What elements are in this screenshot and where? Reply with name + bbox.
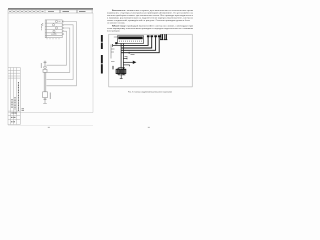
pin numbers right side of A1 xyxy=(63,21,64,35)
svg-text:Рис. 8. Схема соединений выклю: Рис. 8. Схема соединений выключателя заж… xyxy=(128,91,173,94)
paragraph text block xyxy=(107,10,194,32)
wire 3 xyxy=(46,28,69,72)
plug XP1 xyxy=(44,61,47,69)
figure frame xyxy=(109,34,192,87)
label D left of fuse block xyxy=(112,66,114,70)
label XP1 xyxy=(40,63,42,68)
caption under figure xyxy=(128,91,173,94)
pin stubs below A1 xyxy=(47,38,59,40)
wire 2 xyxy=(46,25,73,80)
wire to left margin xyxy=(113,44,122,47)
terminal lug of wire w6 xyxy=(151,35,154,37)
spine artifact bars xyxy=(101,35,103,74)
svg-text:проводов выполняйте согласно с: проводов выполняйте согласно схеме, собл… xyxy=(127,24,195,27)
wire harness w5 xyxy=(121,37,148,45)
connector X2 pins xyxy=(160,34,163,40)
wire 1 xyxy=(46,22,76,86)
label K1 xyxy=(125,55,135,57)
title block table bottom-left xyxy=(8,68,93,126)
crossbar wire xyxy=(119,67,125,69)
svg-text:к зажимам, расположенным на за: к зажимам, расположенным на задней стенк… xyxy=(107,17,194,20)
terminal lug of wire w8 xyxy=(158,35,161,37)
connector X3 pins xyxy=(164,34,167,40)
terminal lug of wire w7 xyxy=(154,35,157,37)
connector XP2 xyxy=(43,92,48,104)
svg-text:всех приборов.: всех приборов. xyxy=(107,30,120,32)
lamp HL5 xyxy=(51,33,56,35)
fuse block F1 xyxy=(116,68,120,75)
lamp HL4 xyxy=(53,30,55,32)
pin numbers of X1 xyxy=(120,41,142,43)
wire harness w7 xyxy=(121,37,156,50)
wire 4 xyxy=(46,31,66,65)
branch w9 xyxy=(123,58,127,60)
socket XS1 xyxy=(43,70,47,92)
wire harness w6 xyxy=(121,37,152,48)
page numbers xyxy=(48,126,150,128)
ground arrow xyxy=(133,61,137,64)
terminal lug of wire w5 xyxy=(147,35,150,37)
terminal T1 at box bottom xyxy=(115,42,117,44)
bus wires xyxy=(121,43,123,69)
label XP2 xyxy=(49,93,51,100)
fuse block F2 xyxy=(121,68,125,75)
switch S1 branch xyxy=(129,52,132,54)
connector box X1 body xyxy=(118,37,142,40)
wire harness w8 xyxy=(121,37,159,53)
lamp HL3 xyxy=(55,27,57,29)
label table in figure xyxy=(111,37,117,62)
leads of fuse blocks xyxy=(118,74,125,79)
connector block A1 xyxy=(45,20,62,38)
label M1 left of block xyxy=(41,23,43,31)
lamp HL2 xyxy=(52,24,54,26)
wire to arrow xyxy=(123,61,133,63)
branch w10 xyxy=(123,65,129,66)
lamp HL1 xyxy=(55,20,60,22)
wire junction ticks xyxy=(43,102,47,104)
connector box X1 xyxy=(117,36,143,44)
